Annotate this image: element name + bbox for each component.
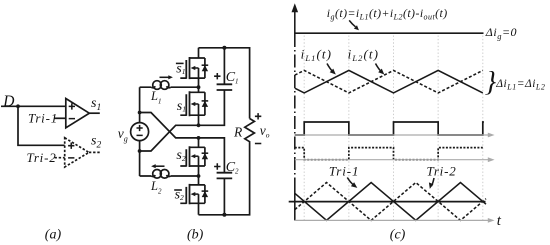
svg-text:Tri-2: Tri-2 [427,164,457,179]
svg-text:L1: L1 [150,89,161,105]
svg-text:vo: vo [260,123,270,140]
svg-text:(b): (b) [187,227,204,242]
svg-text:}: } [485,67,497,98]
svg-text:Tri-1: Tri-1 [329,164,360,179]
svg-text:iL1(t): iL1(t) [301,46,332,63]
svg-text:s2: s2 [176,148,185,163]
svg-text:D: D [2,93,14,110]
svg-text:(a): (a) [45,227,62,242]
svg-text:ig(t)=iL1(t)+iL2(t)-iout(t): ig(t)=iL1(t)+iL2(t)-iout(t) [327,6,448,22]
svg-text:C2: C2 [226,160,239,175]
svg-text:L2: L2 [150,179,162,195]
svg-text:R: R [233,124,243,139]
svg-text:s2: s2 [91,134,101,151]
svg-text:t: t [497,213,502,229]
svg-text:ΔiL1=ΔiL2: ΔiL1=ΔiL2 [495,78,545,92]
svg-text:Tri-2: Tri-2 [27,150,57,165]
svg-text:(c): (c) [390,227,406,242]
svg-text:s1: s1 [177,99,186,114]
svg-text:Tri-1: Tri-1 [28,110,58,125]
svg-text:s1: s1 [91,96,101,113]
svg-text:vg: vg [118,126,128,143]
svg-text:Δig=0: Δig=0 [485,25,517,41]
svg-text:iL2(t): iL2(t) [348,46,379,63]
svg-text:C1: C1 [226,70,239,85]
